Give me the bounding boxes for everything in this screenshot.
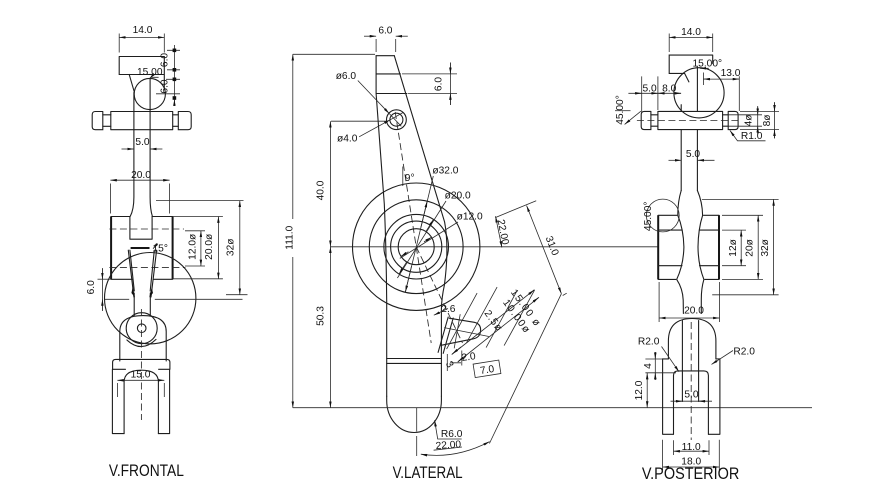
pin right cap	[178, 112, 191, 130]
fork prongs outer	[663, 359, 720, 434]
pin left neck	[651, 115, 658, 126]
svg-text:R2.0: R2.0	[638, 337, 660, 348]
label 7.0 box	[473, 360, 501, 378]
svg-text:6.0: 6.0	[378, 25, 392, 36]
svg-text:15.00: 15.00	[137, 67, 163, 78]
bottom U	[387, 396, 442, 432]
top plate	[119, 57, 164, 92]
bottom vertical centerline	[416, 408, 418, 456]
svg-text:45.00°: 45.00°	[615, 95, 626, 125]
hub dashed centerline upper	[109, 228, 184, 230]
svg-text:12.0: 12.0	[634, 380, 645, 400]
dashed 9deg axis	[395, 112, 431, 343]
pin left cap	[641, 111, 651, 129]
pin left neck	[103, 115, 111, 127]
svg-text:ø20.0: ø20.0	[445, 191, 471, 202]
fork prongs	[112, 369, 169, 433]
spindle right	[697, 191, 704, 314]
svg-text:9°: 9°	[405, 173, 415, 184]
dim 12.0 left	[646, 373, 648, 408]
svg-text:11.0: 11.0	[682, 442, 701, 453]
dashed centerline	[140, 309, 142, 420]
svg-text:40.0: 40.0	[316, 180, 327, 200]
hub slot	[130, 217, 152, 240]
svg-text:45.00°: 45.00°	[643, 202, 654, 232]
dim 32dia right	[702, 199, 779, 294]
hub block sides	[658, 215, 719, 279]
svg-text:32ø: 32ø	[226, 239, 237, 257]
svg-text:22.00: 22.00	[435, 439, 462, 452]
dim 40.0	[331, 120, 386, 122]
dim 4 left	[645, 359, 676, 373]
svg-text:7.0: 7.0	[479, 364, 495, 377]
svg-text:32ø: 32ø	[760, 239, 771, 257]
dim 20.0 bottom	[659, 282, 719, 322]
dim 22.00 arc	[421, 442, 490, 456]
arm neck	[681, 67, 697, 191]
parting lines	[387, 359, 442, 364]
dim 13.0	[703, 78, 739, 80]
pad circle	[674, 68, 724, 118]
boss hole	[137, 324, 146, 333]
svg-text:14.0: 14.0	[133, 25, 153, 36]
dim 18.0	[663, 440, 720, 470]
collar band	[113, 359, 170, 369]
dim 111.0	[292, 54, 294, 407]
svg-text:6.0: 6.0	[86, 280, 97, 294]
svg-text:50.3: 50.3	[316, 306, 327, 326]
dim 14.0	[669, 36, 713, 38]
hub block sides	[111, 217, 173, 280]
svg-text:111.0: 111.0	[284, 225, 295, 249]
fork ledges	[663, 358, 720, 360]
pin body	[111, 112, 173, 130]
pin right neck	[723, 115, 729, 126]
svg-text:5.0: 5.0	[684, 390, 698, 401]
bold slot line	[131, 247, 150, 249]
svg-text:6.0: 6.0	[159, 53, 170, 67]
dim 14.0 extension lines	[119, 34, 164, 53]
dim 12dia right	[722, 230, 746, 266]
dim 5.0 slot	[671, 400, 713, 402]
dim 4dia	[729, 115, 763, 126]
svg-text:12ø: 12ø	[728, 239, 739, 257]
lateral outline left edge	[376, 56, 387, 397]
svg-text:6.0: 6.0	[434, 77, 445, 91]
label 2.0	[447, 351, 462, 372]
svg-text:ø6.0: ø6.0	[336, 71, 357, 82]
dim 20dia right	[722, 215, 763, 279]
svg-text:2.0: 2.0	[461, 351, 477, 364]
long slanted extension	[489, 294, 561, 444]
pin body	[658, 111, 723, 129]
arm neck upper edges	[130, 79, 152, 216]
fork slot	[674, 371, 709, 434]
svg-text:20ø: 20ø	[745, 239, 756, 257]
dim 6.0 left	[101, 268, 103, 311]
svg-text:4: 4	[643, 363, 654, 369]
baseline	[293, 407, 812, 409]
boss cross lines	[444, 314, 489, 348]
small hole	[387, 110, 407, 130]
boss dim ladder lines	[447, 287, 535, 349]
svg-text:20.0: 20.0	[684, 305, 704, 316]
pin right neck	[173, 115, 179, 127]
dim 22.00 upper	[496, 216, 502, 247]
taper below hub	[128, 250, 156, 315]
dim 14.0 extension lines	[669, 34, 713, 53]
svg-text:13.0: 13.0	[721, 68, 741, 79]
dim 111.0 top extension	[293, 53, 375, 55]
svg-text:15.0: 15.0	[131, 370, 151, 381]
svg-text:5.0: 5.0	[686, 149, 700, 160]
svg-text:12.0ø: 12.0ø	[187, 234, 198, 260]
pin right cap	[728, 111, 738, 129]
svg-text:R2.0: R2.0	[733, 347, 755, 358]
9deg tick and label	[402, 167, 404, 187]
hub block horizontals	[658, 215, 719, 279]
svg-text:8ø: 8ø	[762, 114, 773, 126]
svg-text:20.0ø: 20.0ø	[204, 234, 215, 260]
fork dome	[668, 319, 716, 359]
dim 31.0	[527, 206, 562, 294]
svg-text:4ø: 4ø	[743, 114, 754, 126]
svg-text:20.0: 20.0	[131, 170, 151, 181]
dim 50.3	[329, 247, 331, 408]
dashed centerline	[690, 322, 692, 440]
lower boss outline	[120, 316, 166, 361]
svg-text:V.POSTERIOR: V.POSTERIOR	[642, 464, 740, 483]
dim 32dia	[239, 201, 241, 295]
right chain dim line	[156, 45, 180, 104]
dim 6.0 top	[376, 39, 396, 52]
svg-text:V.LATERAL: V.LATERAL	[393, 463, 463, 482]
svg-text:2.6: 2.6	[441, 304, 455, 315]
hub dashed centerline lower	[109, 267, 185, 269]
dim 14.0	[119, 36, 164, 38]
fork inner arch	[124, 370, 158, 433]
dim 20.0dia	[217, 217, 219, 280]
hub circles	[353, 183, 480, 310]
boss lower arc	[127, 339, 156, 346]
horizontal line through flange	[105, 298, 243, 300]
dim 5.0 8.0 left	[628, 92, 681, 94]
dim 11.0	[674, 440, 710, 455]
svg-text:5.0: 5.0	[643, 83, 657, 94]
spindle left	[677, 191, 684, 314]
chamfer circle	[646, 199, 679, 232]
big flange circle	[105, 253, 196, 344]
dim 6.0 right	[402, 74, 457, 94]
svg-text:5.0: 5.0	[135, 137, 149, 148]
svg-text:ø4.0: ø4.0	[337, 134, 358, 145]
horizontal centerline	[330, 246, 658, 248]
pin left cap	[92, 112, 103, 130]
svg-text:8.0: 8.0	[662, 83, 676, 94]
lateral top edge	[376, 55, 394, 57]
lateral outline right edge	[394, 56, 447, 397]
fork rear slot walls	[682, 321, 698, 402]
dim 12.0dia	[200, 231, 202, 266]
dim 8dia	[740, 111, 779, 129]
hub block top and bottom	[111, 217, 173, 280]
pin dashed centerline	[637, 120, 741, 122]
svg-text:6.0: 6.0	[159, 79, 170, 93]
top plate	[669, 55, 713, 82]
upper slanted extension	[495, 201, 536, 218]
svg-text:ø12.0: ø12.0	[457, 212, 483, 223]
block bottom extension left	[98, 278, 112, 280]
svg-text:ø32.0: ø32.0	[432, 166, 458, 177]
extensions right of block	[156, 201, 248, 295]
dashed 22deg axis	[416, 247, 462, 343]
svg-text:14.0: 14.0	[681, 27, 701, 38]
boss circle	[126, 313, 157, 344]
boss cone	[438, 317, 481, 353]
pad circle	[134, 78, 165, 109]
pad step lines	[376, 74, 407, 94]
svg-text:V.FRONTAL: V.FRONTAL	[109, 461, 184, 480]
